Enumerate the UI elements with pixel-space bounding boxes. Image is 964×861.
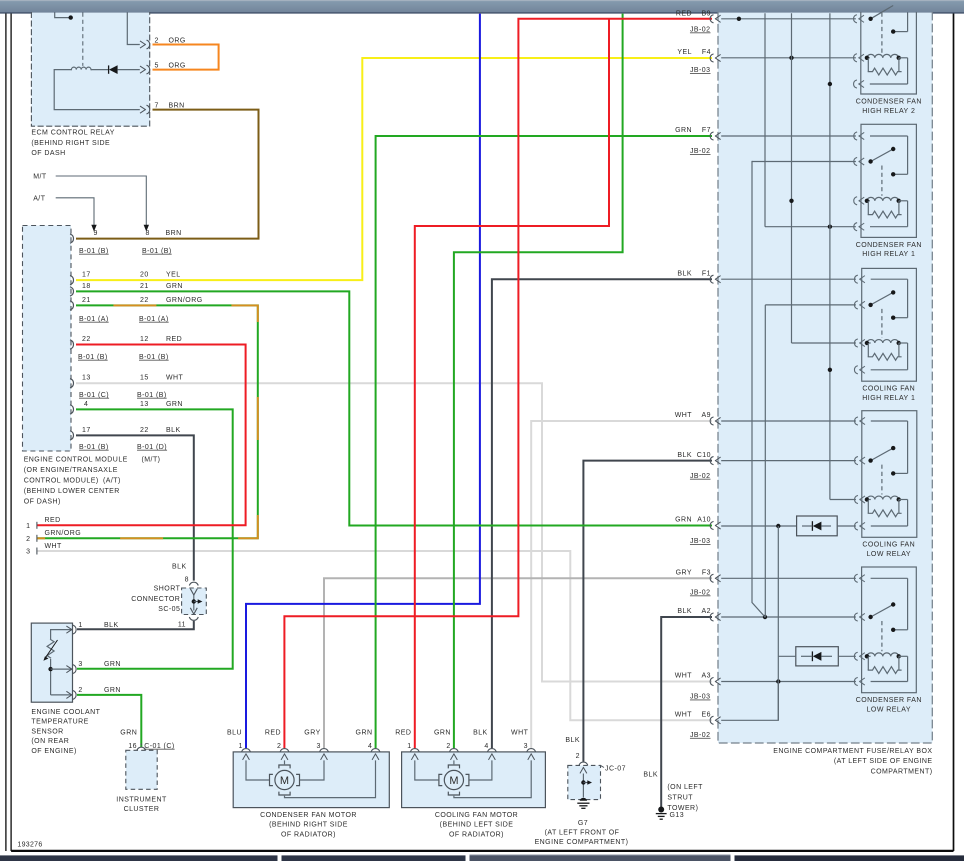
fuse box pin RED [710,15,713,23]
svg-text:RED: RED [395,729,411,736]
svg-text:3: 3 [26,549,30,556]
SC-05 internal wire [193,595,195,611]
svg-text:GRN: GRN [356,729,373,736]
interior vertical V6 (cooling high common to A2) [764,305,766,617]
cooling fan motor pin 1 (RED) [411,749,419,752]
GRN wire fuse box F7 to condenser fan pin 4 [376,136,712,748]
svg-text:9: 9 [94,230,98,237]
svg-text:ORG: ORG [169,37,186,44]
svg-text:OF DASH): OF DASH) [24,499,61,506]
svg-text:BRN: BRN [166,230,182,237]
WHT wire ECM 13/15 to fuse box A3 [76,383,712,681]
interior line P1 to relay2 pin2 [721,18,856,20]
svg-text:15: 15 [140,375,149,382]
svg-text:BLK: BLK [677,452,692,459]
cooling fan motor box [402,752,546,808]
svg-text:F3: F3 [702,570,711,577]
svg-text:BLK: BLK [104,622,119,629]
svg-text:GRN: GRN [434,729,451,736]
svg-text:HIGH RELAY 2: HIGH RELAY 2 [862,108,915,115]
svg-text:CONDENSER FAN: CONDENSER FAN [856,242,922,249]
svg-text:JB-02: JB-02 [690,148,711,155]
svg-text:STRUT: STRUT [667,795,693,802]
ground G7 [580,798,587,801]
svg-text:F1: F1 [702,270,711,277]
interior line F3 to condenser low relay pin1 [721,577,856,579]
svg-text:TOWER): TOWER) [667,805,698,812]
cooling high relay coil line [792,342,856,344]
svg-text:OF RADIATOR): OF RADIATOR) [281,831,336,838]
svg-text:GRN: GRN [675,517,692,524]
svg-text:2: 2 [446,743,450,750]
interior vertical V3 (coil feed) [791,13,793,343]
ECM pin arc [71,276,74,285]
svg-text:(AT LEFT FRONT OF: (AT LEFT FRONT OF [545,830,620,837]
svg-text:G13: G13 [670,812,685,819]
svg-text:COOLING FAN: COOLING FAN [862,542,915,549]
GRN wire ECM 4/13 to ECT sensor pin 3 [76,409,233,668]
relay COOLING FAN LOW RELAY [855,411,917,558]
ground G13 [658,807,664,813]
svg-text:4: 4 [368,743,372,750]
relay1 pin4 line [765,226,856,228]
ECM pin arc [71,340,74,349]
svg-text:GRN: GRN [120,729,137,736]
svg-text:WHT: WHT [675,673,693,680]
ORG wire loop pin2 to pin5 [153,45,219,70]
svg-text:JB-02: JB-02 [690,732,711,739]
instrument cluster box [126,750,157,789]
svg-text:B-01 (B): B-01 (B) [78,354,108,361]
fuse box pin F7 [710,132,713,140]
svg-text:A3: A3 [702,673,711,680]
svg-text:(AT LEFT SIDE OF ENGINE: (AT LEFT SIDE OF ENGINE [834,758,933,765]
svg-text:(ON LEFT: (ON LEFT [667,784,703,791]
BLU wire from top to condenser fan pin 1 [246,14,480,749]
relay COOLING FAN HIGH RELAY 1 [854,268,916,402]
svg-text:GRY: GRY [676,570,692,577]
ECM relay internal top wire [55,13,71,18]
svg-text:B-01 (B): B-01 (B) [142,248,172,255]
diode box D2 [796,647,839,666]
engine compartment fuse/relay box [718,13,932,744]
cooling fan motor pin 3 (WHT) [527,749,535,752]
engine coolant temperature sensor [31,623,72,702]
ECM relay pin 2 wire [127,13,140,45]
ECM pin arc [71,287,74,296]
svg-text:BLK: BLK [643,772,658,779]
interior line E6 riser [721,682,778,721]
fuse box pin A10 [710,522,713,530]
fuse box pin A9 [710,417,713,425]
svg-text:(A/T): (A/T) [103,478,121,485]
svg-text:2: 2 [26,536,30,543]
svg-text:M: M [280,775,289,787]
svg-text:G7: G7 [578,820,588,827]
svg-text:ORG: ORG [169,62,186,69]
junction connector JC-07 [568,765,601,799]
condenser fan motor M symbol [275,770,294,789]
svg-text:WHT: WHT [166,375,184,382]
svg-text:BLK: BLK [565,737,580,744]
svg-text:BLK: BLK [677,608,692,615]
svg-text:13: 13 [82,375,91,382]
svg-text:1: 1 [407,743,411,750]
svg-text:CONNECTOR: CONNECTOR [131,596,180,603]
svg-text:21: 21 [82,297,91,304]
svg-text:B-01 (A): B-01 (A) [79,316,109,323]
interior line A2 to condenser low relay pin2 [721,616,856,618]
svg-text:BLK: BLK [473,729,488,736]
interior line F7 to relay1 pin1 [721,135,856,137]
relay CONDENSER FAN HIGH RELAY 1 [854,124,922,258]
relay coil K1 [71,67,91,69]
ECM relay pin 5 [140,66,145,73]
ECM relay pin 2 [140,41,145,48]
short connector SC-05 [182,588,207,615]
condenser motor internal wires [246,760,269,780]
svg-text:B-01 (B): B-01 (B) [79,248,109,255]
svg-text:2: 2 [277,743,281,750]
svg-text:BLK: BLK [166,427,181,434]
ECM pin arc [71,234,74,243]
svg-text:1: 1 [78,622,82,629]
svg-text:TEMPERATURE: TEMPERATURE [31,719,88,726]
svg-text:RED: RED [265,729,281,736]
svg-text:B-01 (B): B-01 (B) [139,354,169,361]
svg-text:21: 21 [140,283,149,290]
SC-05 pin 11 (bottom) [190,618,198,621]
svg-text:CONDENSER FAN MOTOR: CONDENSER FAN MOTOR [260,812,357,819]
WHT wire fuse box A9 to cooling fan pin 3 [531,421,712,748]
svg-text:B-01 (B): B-01 (B) [137,392,167,399]
ECM pin arc [71,301,74,310]
ECT pin 2 [67,692,72,699]
junction dot [69,15,73,19]
BLK wire fuse box A2 to ground G13 [661,617,712,807]
svg-text:BLK: BLK [677,270,692,277]
svg-text:1: 1 [26,523,30,530]
svg-text:RED: RED [45,517,61,524]
svg-text:LOW RELAY: LOW RELAY [867,551,911,558]
ECM pin arc [71,431,74,440]
interior line A9 to cooling low relay pin1 [721,420,856,422]
svg-text:BLK: BLK [172,564,187,571]
ECM control relay box [31,13,149,127]
svg-text:193276: 193276 [17,842,42,849]
interior line F4 to relay2 coil [721,57,856,59]
svg-text:RED: RED [166,336,182,343]
svg-text:2: 2 [78,687,82,694]
svg-text:A2: A2 [702,608,711,615]
svg-text:18: 18 [82,283,91,290]
svg-text:GRN/ORG: GRN/ORG [45,530,82,537]
RED wire A fuse pin to condenser fan pin 2 [284,19,712,748]
svg-text:CONDENSER FAN: CONDENSER FAN [856,98,922,105]
relay CONDENSER FAN HIGH RELAY 2 [854,6,922,115]
svg-text:ENGINE COMPARTMENT FUSE/RELAY: ENGINE COMPARTMENT FUSE/RELAY BOX [773,748,932,755]
svg-text:GRN: GRN [104,687,121,694]
svg-text:SC-05: SC-05 [158,606,180,613]
instrument cluster pin 16 [137,747,145,750]
svg-text:22: 22 [140,427,149,434]
fuse box pin A3 [710,678,713,686]
fuse box pin E6 [710,716,713,724]
interior vertical V4 (coil return bus) [829,13,831,499]
YEL wire to fuse box F4 [76,58,712,280]
svg-text:2: 2 [155,37,159,44]
svg-text:GRY: GRY [304,729,320,736]
svg-text:3: 3 [524,743,528,750]
cooling fan motor M symbol [444,770,463,789]
cooling fan motor pin 2 (GRN) [450,749,458,752]
svg-text:WHT: WHT [675,412,693,419]
fuse box pin A2 [710,613,713,621]
svg-text:CONDENSER FAN: CONDENSER FAN [856,697,922,704]
svg-text:20: 20 [140,271,149,278]
svg-text:INSTRUMENT: INSTRUMENT [116,796,167,803]
svg-text:GRN: GRN [675,127,692,134]
page bottom frame line [11,850,953,852]
ECM relay internal dashed armature [82,13,84,66]
svg-text:COOLING FAN: COOLING FAN [862,386,915,393]
svg-text:3: 3 [316,743,320,750]
svg-text:ENGINE COMPARTMENT): ENGINE COMPARTMENT) [535,839,629,846]
relay CONDENSER FAN LOW RELAY [854,567,922,714]
fuse box pin F1 [710,275,713,283]
svg-text:WHT: WHT [675,712,693,719]
svg-text:ENGINE COOLANT: ENGINE COOLANT [31,709,100,716]
svg-text:LOW RELAY: LOW RELAY [867,707,911,714]
relay coil left wire to pin 7 [54,70,140,110]
interior line A10 to diode to cooling low relay pin4 [721,525,796,527]
svg-text:A10: A10 [697,517,711,524]
svg-text:7: 7 [155,102,159,109]
svg-text:12: 12 [140,336,149,343]
svg-text:B-01 (D): B-01 (D) [137,444,167,451]
ECT internal thermistor [51,630,73,639]
WHT wire node 3 to fuse box E6 [37,551,712,720]
BLK wire fuse box C10 to ground G7 [583,461,712,762]
svg-text:E6: E6 [702,712,711,719]
svg-text:4: 4 [84,401,88,408]
cooling motor internal wires [415,760,439,780]
svg-text:GRN: GRN [166,283,183,290]
svg-text:4: 4 [484,743,488,750]
svg-text:RED: RED [676,11,692,18]
svg-text:22: 22 [140,297,149,304]
interior vertical V5 (relay1 common to A2) [752,162,765,618]
svg-text:(M/T): (M/T) [142,457,161,464]
svg-text:(OR ENGINE/TRANSAXLE: (OR ENGINE/TRANSAXLE [24,467,118,474]
RED wire B to cooling fan pin 1 [415,19,609,748]
svg-text:ECM CONTROL RELAY: ECM CONTROL RELAY [31,130,115,137]
ECT pin 1 [67,626,72,633]
bottom thumbnail bars [0,855,278,861]
svg-text:C-01 (C): C-01 (C) [144,743,174,750]
svg-text:JB-02: JB-02 [690,590,711,597]
svg-text:CONTROL MODULE): CONTROL MODULE) [24,478,99,485]
interior vertical V7 [777,526,779,720]
svg-text:JB-02: JB-02 [690,27,711,34]
svg-text:OF ENGINE): OF ENGINE) [31,748,76,755]
svg-text:5: 5 [155,62,159,69]
svg-text:BLU: BLU [227,729,242,736]
GRN/ORG wire ECM 21/22 to node 2 [37,305,258,538]
svg-text:13: 13 [140,401,149,408]
ECM pin arc [71,405,74,414]
BLK wire SC-05 pin 11 to ECT pin 1 [77,621,194,629]
svg-text:(BEHIND RIGHT SIDE: (BEHIND RIGHT SIDE [31,140,110,147]
svg-text:A9: A9 [702,412,711,419]
SC-05 pin 8 (top) [190,582,198,585]
svg-text:ENGINE CONTROL MODULE: ENGINE CONTROL MODULE [24,457,128,464]
ECT pin 3 [67,666,72,673]
ECM relay pin 7 [140,106,145,113]
interior line F1 to cooling high relay pin1 [721,278,856,280]
svg-text:B-01 (B): B-01 (B) [79,444,109,451]
relay1 pin2 line [752,161,856,163]
interior line A3 to condenser low relay pin4 [721,681,856,683]
fuse box pin F4 [710,54,713,62]
svg-text:OF DASH: OF DASH [31,150,65,157]
fuse box pin F3 [710,574,713,582]
svg-text:HIGH RELAY 1: HIGH RELAY 1 [862,251,915,258]
svg-text:JC-07: JC-07 [605,765,626,772]
svg-text:22: 22 [82,336,91,343]
svg-text:2: 2 [576,753,580,760]
svg-text:17: 17 [82,427,91,434]
GRN wire from top to cooling fan pin 2 [454,14,623,749]
ECM pin arc [71,379,74,388]
engine control module box [23,226,72,452]
cooling high relay pin2 line [765,304,856,306]
svg-text:YEL: YEL [677,49,692,56]
svg-text:OF RADIATOR): OF RADIATOR) [449,831,504,838]
BRN wire pin7 to ECM pins 9/8 [76,110,259,239]
svg-text:GRN: GRN [166,401,183,408]
condenser fan motor pin 2 (RED) [280,749,288,752]
interior vertical V2 [764,13,766,227]
svg-text:11: 11 [178,621,186,628]
svg-text:8: 8 [146,230,150,237]
condenser fan motor pin 3 (GRY) [320,749,328,752]
svg-text:WHT: WHT [45,543,63,550]
svg-text:B9: B9 [702,11,711,18]
BLK wire fuse box F1 to cooling fan pin 4 [492,279,712,748]
GRN wire ECT pin 2 to instrument cluster pin 16 [77,695,141,747]
condenser fan motor pin 1 (BLU) [242,749,250,752]
svg-text:B-01 (C): B-01 (C) [79,392,109,399]
svg-text:M/T: M/T [33,174,47,181]
RED wire ECM 22/12 to node 1 [37,345,246,526]
svg-text:16: 16 [128,743,137,750]
svg-text:17: 17 [82,271,91,278]
svg-text:WHT: WHT [511,729,529,736]
svg-text:SHORT: SHORT [154,586,181,593]
svg-text:CLUSTER: CLUSTER [124,806,160,813]
svg-text:C10: C10 [697,452,711,459]
GRN wire ECM 18/21 to fuse box A10 [76,291,712,525]
svg-text:1: 1 [238,743,242,750]
svg-text:M: M [449,775,458,787]
cooling low relay coil line [830,499,856,501]
svg-text:BRN: BRN [169,102,185,109]
svg-text:HIGH RELAY 1: HIGH RELAY 1 [862,395,915,402]
svg-text:YEL: YEL [166,271,181,278]
cooling fan motor pin 4 (BLK) [488,749,496,752]
svg-text:JB-03: JB-03 [690,694,711,701]
JC-07 internal wire [582,774,584,798]
svg-text:F4: F4 [702,49,711,56]
svg-text:JB-03: JB-03 [690,67,711,74]
condenser fan motor pin 4 (GRN) [371,749,379,752]
GRY wire fuse box F3 to condenser fan pin 3 [324,578,712,748]
svg-text:B-01 (A): B-01 (A) [139,316,169,323]
svg-text:8: 8 [185,576,189,583]
svg-text:(ON REAR: (ON REAR [31,738,69,745]
relay diode [91,69,109,71]
condenser fan motor box [233,752,389,808]
svg-text:(BEHIND LEFT SIDE: (BEHIND LEFT SIDE [440,822,514,829]
interior line C10 to cooling low relay pin2 [721,460,856,462]
BLK wire ECM 17/22 to short connector pin 8 [76,435,194,580]
D2 left wire tee into V7 [778,655,796,657]
svg-text:SENSOR: SENSOR [31,728,63,735]
fuse box pin C10 [710,457,713,465]
svg-text:JB-03: JB-03 [690,538,711,545]
svg-text:GRN/ORG: GRN/ORG [166,297,203,304]
svg-text:COMPARTMENT): COMPARTMENT) [871,768,933,775]
svg-text:GRN: GRN [104,661,121,668]
svg-text:(BEHIND RIGHT SIDE: (BEHIND RIGHT SIDE [269,822,348,829]
svg-text:3: 3 [78,661,82,668]
svg-text:COOLING FAN MOTOR: COOLING FAN MOTOR [435,812,518,819]
svg-text:(BEHIND LOWER CENTER: (BEHIND LOWER CENTER [24,488,120,495]
svg-text:JB-02: JB-02 [690,473,711,480]
page right border [953,14,955,852]
svg-text:A/T: A/T [33,195,46,202]
page left double border [5,14,7,852]
diode box D1 [797,516,838,536]
svg-text:F7: F7 [702,127,711,134]
